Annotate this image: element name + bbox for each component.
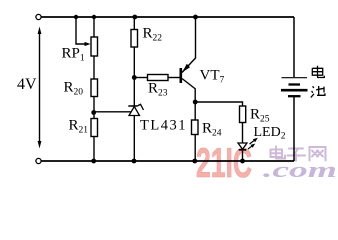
wire bottom rail [41, 160, 294, 162]
label R22 [143, 26, 163, 44]
wire LED to rail [242, 150, 244, 161]
wire ref to TL431 [94, 111, 131, 113]
resistor R24 [192, 120, 199, 135]
svg-text:VT7: VT7 [200, 68, 225, 86]
label R20 [64, 80, 84, 98]
potentiometer RP1 [91, 37, 98, 56]
wire rail to RP1 [93, 17, 95, 37]
node rail-R22 [132, 15, 137, 20]
node collector [193, 100, 198, 105]
svg-text:R25: R25 [250, 107, 270, 125]
svg-text:RP1: RP1 [62, 46, 85, 64]
svg-text:LED2: LED2 [254, 125, 286, 142]
label R24 [202, 121, 222, 139]
regulator TL431 [128, 104, 143, 115]
label R21 [69, 118, 89, 136]
watermark .com [263, 157, 337, 182]
wire top rail [41, 16, 294, 18]
resistor R21 [91, 119, 98, 137]
node B R22-R23-TL431 [132, 75, 137, 80]
transistor VT7 [180, 58, 196, 89]
4V dimension arrow [38, 27, 42, 149]
label battery chi [311, 86, 325, 98]
wire RP1 wiper branch [76, 17, 91, 46]
svg-text:R22: R22 [143, 26, 163, 44]
battery GB [281, 78, 308, 97]
wire TL431 anode to rail [133, 116, 135, 162]
wire R23 to base [168, 77, 180, 79]
LED light arrows [248, 138, 258, 149]
wire R21 to bottom rail [93, 137, 95, 162]
label RP1 [62, 46, 85, 64]
terminal + input [36, 14, 41, 19]
label TL431 [140, 118, 187, 134]
wire R25 to LED [242, 123, 244, 144]
node rail-RP1 wiper [74, 15, 78, 19]
wire RP1 to R20 [93, 56, 95, 79]
node LED ground [240, 159, 245, 164]
node TL431 ground [132, 159, 137, 164]
node rail-emitter [193, 15, 198, 20]
terminal - input [36, 158, 41, 163]
svg-text:R21: R21 [69, 118, 89, 136]
wire R20 to node [93, 97, 95, 119]
label battery dian [312, 66, 324, 78]
svg-text:4V: 4V [17, 76, 37, 93]
label 4V [17, 76, 37, 93]
wire R24 to rail [194, 135, 196, 162]
svg-text:TL431: TL431 [140, 118, 187, 134]
resistor R22 [131, 30, 138, 48]
svg-text:R23: R23 [148, 81, 168, 99]
wire rail to R22 [133, 17, 135, 30]
resistor R20 [91, 79, 98, 97]
wire collector to R25 [195, 102, 242, 106]
diode LED2 [238, 143, 247, 150]
wire node B to R23 [134, 77, 147, 79]
watermark 21IC [196, 139, 252, 186]
svg-text:R24: R24 [202, 121, 222, 139]
node R24 ground [192, 159, 197, 164]
wire emitter to rail [195, 17, 197, 59]
resistor R23 [148, 75, 169, 81]
label VT7 [200, 68, 225, 86]
resistor R25 [240, 106, 246, 123]
watermark dianziwang [271, 147, 326, 161]
svg-text:R20: R20 [64, 80, 84, 98]
node rail-RP1 top [92, 15, 96, 19]
label R23 [148, 81, 168, 99]
wire R22 to node B [133, 47, 135, 107]
node divider ref [91, 110, 96, 115]
wire rail to battery top [293, 17, 295, 77]
node R21 ground [91, 159, 96, 164]
label LED2 [254, 125, 286, 142]
label R25 [250, 107, 270, 125]
wire collector down [194, 89, 196, 121]
wire battery to bottom rail [293, 96, 295, 161]
